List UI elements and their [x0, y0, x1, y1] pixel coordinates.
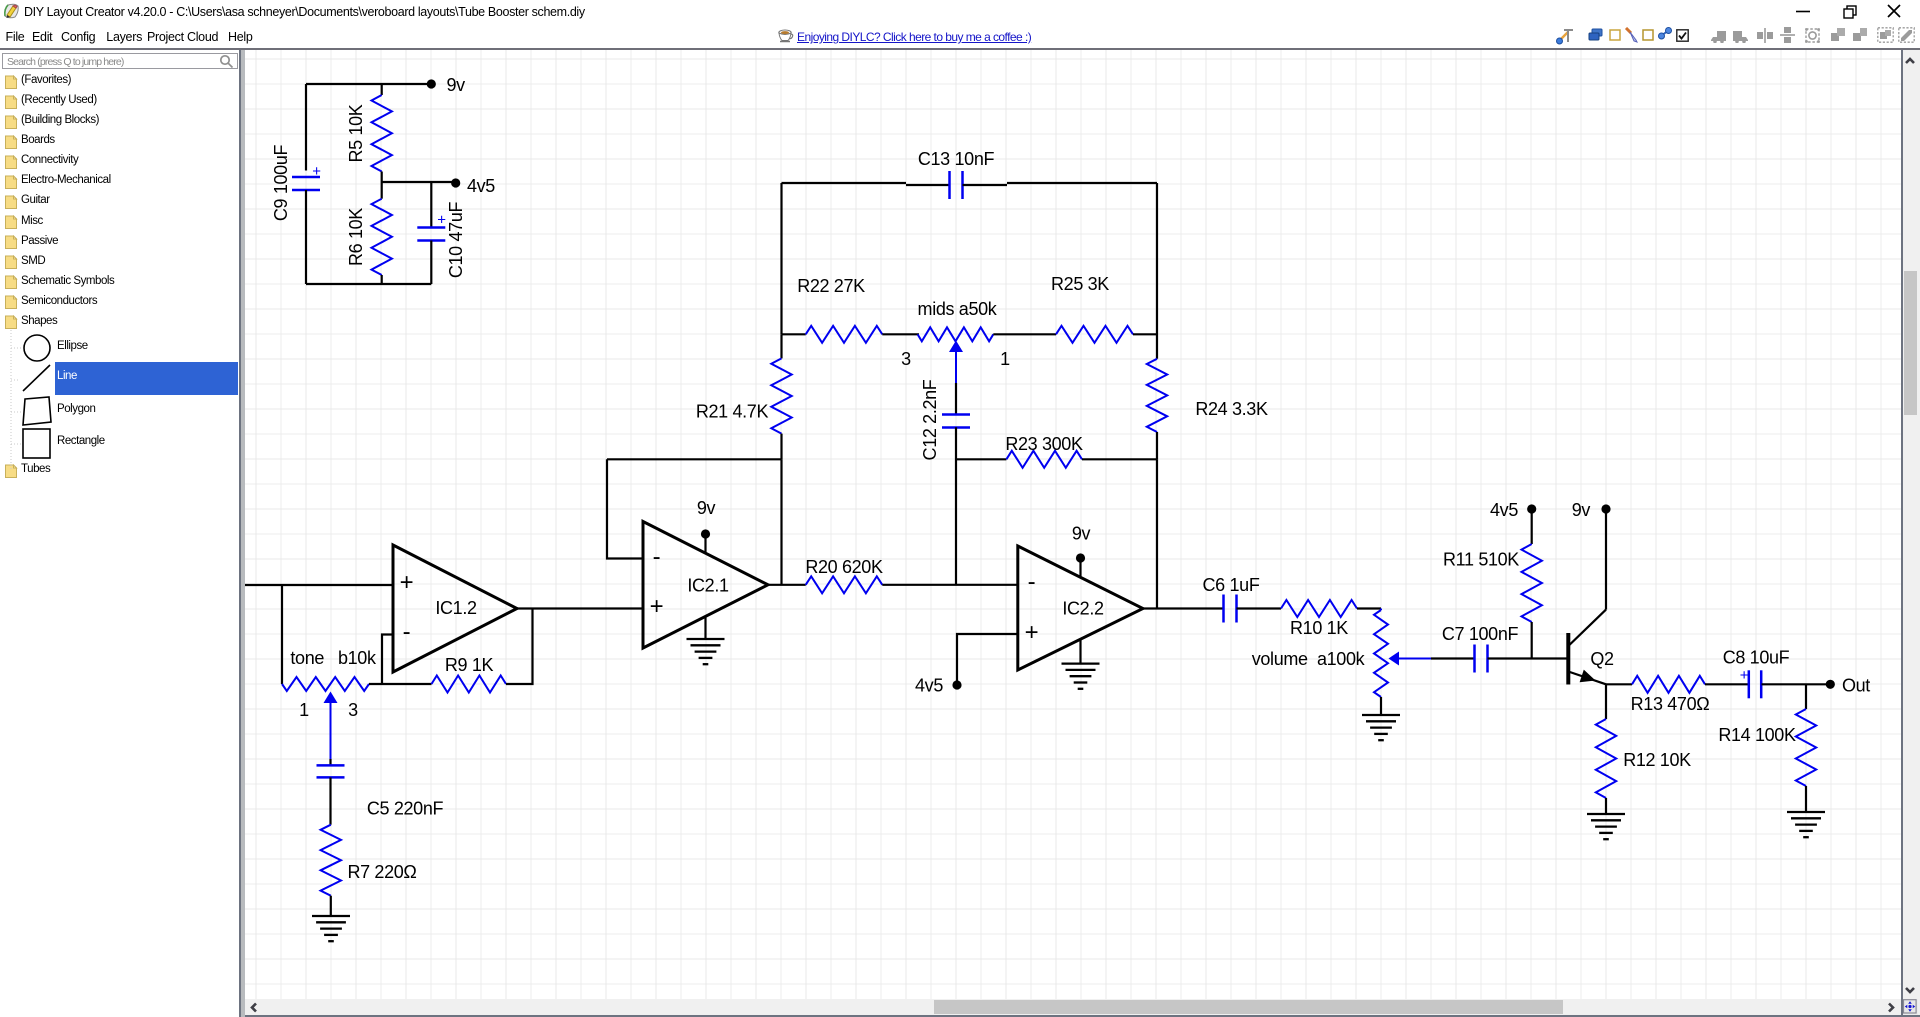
svg-text:+: +	[1740, 667, 1749, 684]
svg-text:Out: Out	[1842, 675, 1870, 695]
wire tone pot to R9	[369, 683, 432, 685]
capacitor C12 2.2nF	[955, 383, 957, 415]
svg-text:tone b10k: tone b10k	[290, 648, 377, 668]
wire feedback vertical to IC2.1 inv input	[607, 459, 643, 558]
resistor R5 10K	[381, 84, 383, 95]
wiper arrow (mids)	[949, 341, 963, 353]
resistor R6 10K	[381, 182, 383, 199]
node 9v (left)	[427, 79, 436, 88]
title bar	[0, 0, 1920, 24]
node 9v (IC2.2)	[1079, 562, 1081, 577]
resistor R12 10K	[1605, 684, 1607, 719]
wiper arrow (tone)	[324, 692, 338, 704]
capacitor C10 47uF	[430, 182, 432, 228]
svg-text:IC2.2: IC2.2	[1062, 599, 1104, 619]
svg-text:3: 3	[348, 700, 358, 720]
svg-text:C13 10nF: C13 10nF	[918, 149, 995, 169]
svg-text:R11 510K: R11 510K	[1443, 550, 1519, 570]
svg-text:+: +	[437, 212, 446, 229]
svg-text:-: -	[403, 619, 411, 646]
svg-text:R24 3.3K: R24 3.3K	[1195, 399, 1268, 419]
svg-text:R25 3K: R25 3K	[1051, 274, 1109, 294]
wire emitter row to R13	[1606, 683, 1632, 685]
svg-text:C10 47uF: C10 47uF	[446, 202, 466, 279]
capacitor C6 1uF	[1222, 595, 1225, 623]
svg-text:C7 100nF: C7 100nF	[1442, 624, 1519, 644]
svg-text:R23 300K: R23 300K	[1005, 434, 1083, 454]
svg-text:-: -	[1028, 569, 1036, 596]
svg-text:volume a100k: volume a100k	[1252, 649, 1366, 669]
svg-text:+: +	[1025, 619, 1039, 646]
svg-text:4v5: 4v5	[1490, 500, 1518, 520]
svg-text:R13 470Ω: R13 470Ω	[1631, 694, 1710, 714]
left panel	[0, 50, 240, 1017]
wire IC2.1 output to R20	[768, 584, 806, 586]
svg-text:R5 10K: R5 10K	[346, 104, 366, 162]
resistor R11 510K	[1531, 509, 1533, 544]
op-amp IC1.2	[393, 545, 517, 672]
ground (volume)	[1362, 714, 1400, 716]
wire IC1.2 output row	[517, 607, 643, 609]
wire R20 to IC2.2 inv input	[882, 584, 1018, 586]
svg-text:R12 10K: R12 10K	[1623, 750, 1691, 770]
wire bottom of divider	[306, 283, 431, 285]
resistor R7 220&#937;	[321, 825, 341, 896]
resistor R25 3K	[1056, 326, 1133, 343]
wire left vertical (C13 to R22 row)	[780, 183, 782, 334]
wire input junction down to tone pot	[281, 585, 283, 684]
menu bar	[0, 24, 1920, 48]
svg-text:9v: 9v	[447, 75, 466, 95]
svg-text:C12 2.2nF: C12 2.2nF	[920, 379, 940, 460]
wire right vertical R23 row to IC2.2 out row	[1156, 459, 1158, 608]
wire R13 to C8	[1705, 683, 1749, 685]
resistor R20 620K	[806, 576, 883, 593]
node 4v5 (IC2.2)	[952, 680, 961, 689]
wire R9 to feedback vertical	[506, 609, 533, 685]
svg-text:IC1.2: IC1.2	[435, 598, 477, 618]
node Out	[1826, 680, 1835, 689]
svg-text:C9 100uF: C9 100uF	[271, 145, 291, 222]
wire IC2.2 non-inv input	[957, 634, 1018, 685]
wire C8 to Out	[1762, 683, 1831, 685]
svg-text:9v: 9v	[1072, 524, 1091, 544]
resistor R23 300K	[956, 458, 1006, 460]
svg-text:+: +	[312, 163, 321, 180]
wire IC2.2 output	[1143, 607, 1223, 609]
capacitor C7 100nF	[1473, 645, 1476, 673]
svg-text:3: 3	[901, 349, 911, 369]
menu divider	[0, 48, 1920, 50]
wire input row	[245, 584, 393, 586]
wire IC2.1 feedback row	[607, 458, 782, 460]
svg-text:-: -	[653, 544, 661, 571]
ground (IC2.2)	[1079, 640, 1081, 664]
transistor Q2	[1566, 633, 1570, 685]
ground (R12)	[1587, 813, 1625, 815]
svg-text:1: 1	[1000, 349, 1010, 369]
svg-text:Q2: Q2	[1590, 649, 1614, 669]
svg-text:R14 100K: R14 100K	[1718, 725, 1796, 745]
wire wiper to C7	[1431, 657, 1475, 659]
node 4v5 (left)	[451, 178, 460, 187]
wiper arrow (volume)	[1389, 652, 1400, 666]
svg-text:R21 4.7K: R21 4.7K	[696, 402, 769, 422]
resistor R24 3.3K	[1147, 359, 1167, 432]
wire R22 to mids pot	[882, 333, 919, 335]
capacitor C5 220nF	[329, 759, 331, 765]
svg-text:9v: 9v	[1572, 500, 1591, 520]
node 9v (IC2.1)	[704, 538, 706, 553]
ground (R14)	[1787, 811, 1825, 813]
op-amp IC2.2	[1018, 546, 1143, 670]
svg-text:R20 620K: R20 620K	[805, 557, 883, 577]
resistor R10 1K	[1281, 600, 1357, 617]
op-amp IC2.1	[643, 522, 768, 649]
resistor R21 4.7K	[780, 334, 782, 358]
svg-text:mids a50k: mids a50k	[918, 299, 998, 319]
wire 4v5 node left	[382, 181, 456, 183]
svg-text:C8 10uF: C8 10uF	[1723, 648, 1790, 668]
wire mids pot to R25	[993, 333, 1056, 335]
svg-text:4v5: 4v5	[915, 676, 943, 696]
wire R10 to volume pot	[1357, 607, 1381, 609]
svg-text:R10 1K: R10 1K	[1290, 618, 1348, 638]
svg-text:+: +	[650, 593, 664, 620]
capacitor C13 10nF	[782, 182, 907, 184]
node 4v5 (R11 top)	[1527, 504, 1536, 513]
svg-text:R6 10K: R6 10K	[346, 208, 366, 266]
ground (IC2.1)	[704, 617, 706, 640]
svg-text:C5 220nF: C5 220nF	[367, 799, 444, 819]
svg-text:+: +	[400, 569, 414, 596]
svg-text:R7 220Ω: R7 220Ω	[347, 862, 416, 882]
resistor R13 470&#937;	[1632, 676, 1705, 693]
wire IC1.2 inv input stub	[382, 635, 393, 685]
svg-text:C6 1uF: C6 1uF	[1203, 575, 1260, 595]
svg-text:4v5: 4v5	[467, 176, 495, 196]
wire 9v down to Q2 collector	[1605, 509, 1607, 610]
potentiometer volume a100k	[1380, 609, 1382, 611]
wire left vertical R21 to output row	[780, 459, 782, 585]
wire volume pot bottom to ground	[1380, 697, 1382, 715]
potentiometer mids a50k	[918, 327, 994, 341]
resistor R9 1K	[432, 676, 507, 693]
svg-text:1: 1	[299, 700, 309, 720]
capacitor C9 100uF	[305, 84, 307, 171]
svg-text:R9 1K: R9 1K	[445, 655, 494, 675]
resistor R14 100K	[1805, 684, 1807, 709]
svg-text:9v: 9v	[697, 498, 716, 518]
resistor R22 27K	[782, 333, 806, 335]
ground (below R7)	[312, 915, 350, 917]
svg-text:IC2.1: IC2.1	[687, 576, 729, 596]
capacitor C8 10uF	[1748, 670, 1751, 698]
node 9v (right)	[1601, 504, 1610, 513]
splitter	[239, 50, 241, 1017]
svg-text:R22 27K: R22 27K	[797, 276, 865, 296]
wire 9v rail top-left	[306, 83, 431, 85]
potentiometer tone b10k	[282, 677, 369, 691]
wire right vertical (C13 to R24)	[1156, 183, 1158, 359]
